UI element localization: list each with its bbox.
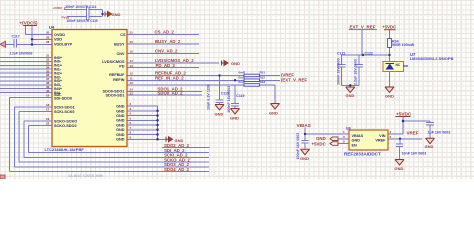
svg-text:PD_AD_2: PD_AD_2 [156, 63, 176, 68]
svg-text:21: 21 [130, 31, 134, 35]
svg-text:LTC2348IUK-18#PBF: LTC2348IUK-18#PBF [45, 147, 85, 152]
svg-text:SDI-SDO0: SDI-SDO0 [54, 97, 72, 101]
svg-text:CNV: CNV [116, 52, 124, 56]
svg-text:0mR: 0mR [239, 75, 246, 79]
svg-text:22: 22 [46, 122, 50, 126]
svg-text:U8: U8 [346, 127, 351, 131]
svg-text:VBIAS: VBIAS [297, 123, 311, 128]
svg-text:SDO4_AD_2: SDO4_AD_2 [164, 167, 190, 172]
svg-text:OVDD: OVDD [54, 33, 65, 37]
svg-text:R31: R31 [260, 71, 266, 75]
svg-text:3: 3 [343, 135, 345, 139]
svg-text:C122: C122 [365, 51, 373, 55]
svg-text:13: 13 [130, 64, 134, 68]
svg-text:GND: GND [116, 105, 125, 109]
svg-text:10uF 6.3V 1206: 10uF 6.3V 1206 [207, 84, 211, 110]
svg-text:U4: U4 [49, 25, 55, 30]
svg-text:SDO0_AD_2: SDO0_AD_2 [158, 91, 184, 96]
svg-text:GND: GND [395, 166, 404, 171]
svg-text:VDD: VDD [54, 38, 62, 42]
svg-text:GND: GND [231, 61, 240, 66]
svg-text:0mR: 0mR [239, 80, 246, 84]
svg-text:R33: R33 [260, 80, 266, 84]
svg-text:C117: C117 [12, 34, 20, 38]
svg-text:BUSY: BUSY [114, 43, 125, 47]
svg-text:100nF 16V/0603: 100nF 16V/0603 [227, 86, 231, 113]
svg-text:1: 1 [343, 130, 345, 134]
svg-text:REF2033AIDDCT: REF2033AIDDCT [344, 151, 381, 156]
svg-text:GND: GND [352, 139, 361, 143]
svg-text:6: 6 [130, 121, 132, 125]
svg-text:100nF 16V/0603: 100nF 16V/0603 [336, 58, 340, 85]
svg-text:12: 12 [130, 72, 134, 76]
svg-text:0mR: 0mR [239, 71, 246, 75]
svg-text:SDO0-SD1: SDO0-SD1 [106, 94, 125, 98]
svg-text:GND: GND [116, 124, 125, 128]
svg-text:9: 9 [130, 135, 132, 139]
svg-text:REF_IN_AD_2: REF_IN_AD_2 [155, 76, 184, 81]
svg-text:1A 8/16 C2016 20M: 1A 8/16 C2016 20M [68, 173, 103, 178]
svg-text:10nF 16V 0603: 10nF 16V 0603 [402, 151, 427, 155]
svg-text:100nF 16V/X7R C114: 100nF 16V/X7R C114 [65, 5, 96, 9]
svg-text:VDDLBYP: VDDLBYP [54, 42, 73, 46]
svg-text:2: 2 [130, 102, 132, 106]
svg-text:29: 29 [46, 35, 50, 39]
svg-text:28: 28 [46, 40, 50, 44]
svg-text:7: 7 [130, 126, 132, 130]
svg-text:GND: GND [116, 138, 125, 142]
svg-text:VBIAS: VBIAS [352, 134, 364, 138]
svg-text:LM4040DIM3-2.5/NOPB: LM4040DIM3-2.5/NOPB [410, 56, 454, 61]
svg-text:2: 2 [390, 135, 392, 139]
svg-text:NC: NC [396, 63, 401, 67]
svg-text:GND: GND [385, 93, 394, 98]
svg-text:30: 30 [46, 31, 50, 35]
svg-text:VIN: VIN [379, 134, 386, 138]
svg-text:BUSY_AD_2: BUSY_AD_2 [155, 39, 181, 44]
svg-text:SCKO-SCKO: SCKO-SCKO [54, 120, 77, 124]
svg-text:15: 15 [130, 50, 134, 54]
svg-text:CS: CS [120, 33, 126, 37]
svg-text:GND: GND [116, 109, 125, 113]
svg-text:SCKO-SDO2: SCKO-SDO2 [54, 124, 77, 128]
svg-text:REFIN: REFIN [113, 78, 125, 82]
svg-text:REFBUF: REFBUF [109, 73, 125, 77]
svg-text:GND: GND [269, 110, 278, 115]
svg-text:+(VDC5): +(VDC5) [20, 20, 38, 25]
svg-text:+5VDC_2: +5VDC_2 [53, 6, 66, 10]
svg-text:GND: GND [300, 156, 309, 161]
svg-text:PD: PD [119, 65, 125, 69]
svg-text:14: 14 [130, 59, 134, 63]
svg-text:+5VDC: +5VDC [312, 141, 327, 146]
svg-text:10: 10 [130, 81, 134, 85]
svg-text:GND: GND [112, 12, 121, 17]
svg-text:EXT_V_REF: EXT_V_REF [350, 24, 376, 29]
svg-text:EN: EN [352, 143, 358, 147]
svg-text:100nF 16V/X7R C115: 100nF 16V/X7R C115 [67, 19, 98, 23]
svg-text:+5VDC: +5VDC [382, 24, 397, 29]
svg-text:8: 8 [130, 131, 132, 135]
svg-text:100nF 16V 0603: 100nF 16V 0603 [296, 133, 300, 160]
svg-text:18: 18 [46, 103, 50, 107]
svg-text:2.2uF 16V/0603: 2.2uF 16V/0603 [10, 51, 33, 55]
svg-text:SCKI-SDO1: SCKI-SDO1 [54, 106, 75, 110]
svg-text:VREF: VREF [375, 139, 386, 143]
svg-text:GND: GND [175, 138, 184, 143]
svg-text:40: 40 [46, 89, 50, 93]
svg-text:20: 20 [130, 40, 134, 44]
svg-text:3: 3 [130, 107, 132, 111]
svg-text:900R 100mW: 900R 100mW [392, 43, 415, 47]
svg-text:GND: GND [425, 144, 434, 149]
svg-text:GND: GND [116, 128, 125, 132]
svg-text:C121: C121 [337, 51, 345, 55]
svg-text:(EXT_V_REF: (EXT_V_REF [281, 77, 307, 82]
svg-text:CNV_AD_2: CNV_AD_2 [155, 49, 178, 54]
svg-text:4: 4 [390, 130, 392, 134]
svg-text:R32: R32 [260, 75, 266, 79]
svg-text:5: 5 [343, 140, 345, 144]
svg-text:17: 17 [46, 108, 50, 112]
svg-text:2.2uF 16V 0603: 2.2uF 16V 0603 [354, 59, 358, 85]
svg-text:C119: C119 [236, 94, 244, 98]
svg-text:GND: GND [116, 114, 125, 118]
svg-text:GND: GND [230, 115, 239, 120]
svg-text:19: 19 [46, 117, 50, 121]
svg-text:4: 4 [130, 112, 132, 116]
svg-text:SCKI-SCK0: SCKI-SCK0 [54, 110, 74, 114]
svg-text:5: 5 [130, 116, 132, 120]
svg-text:GND: GND [116, 133, 125, 137]
svg-text:VREF: VREF [407, 131, 419, 136]
svg-text:23: 23 [130, 91, 134, 95]
svg-text:GND: GND [316, 136, 326, 141]
svg-text:CS_AD_2: CS_AD_2 [155, 30, 175, 35]
svg-text:LVDS/CMOS: LVDS/CMOS [102, 60, 125, 64]
svg-text:GND: GND [346, 93, 355, 98]
svg-text:GND: GND [215, 112, 224, 117]
svg-text:16: 16 [46, 94, 50, 98]
svg-text:+5VDC: +5VDC [396, 111, 412, 116]
svg-text:11: 11 [130, 77, 134, 81]
svg-text:GND: GND [116, 119, 125, 123]
svg-text:1uF 16V 0603: 1uF 16V 0603 [428, 130, 451, 134]
